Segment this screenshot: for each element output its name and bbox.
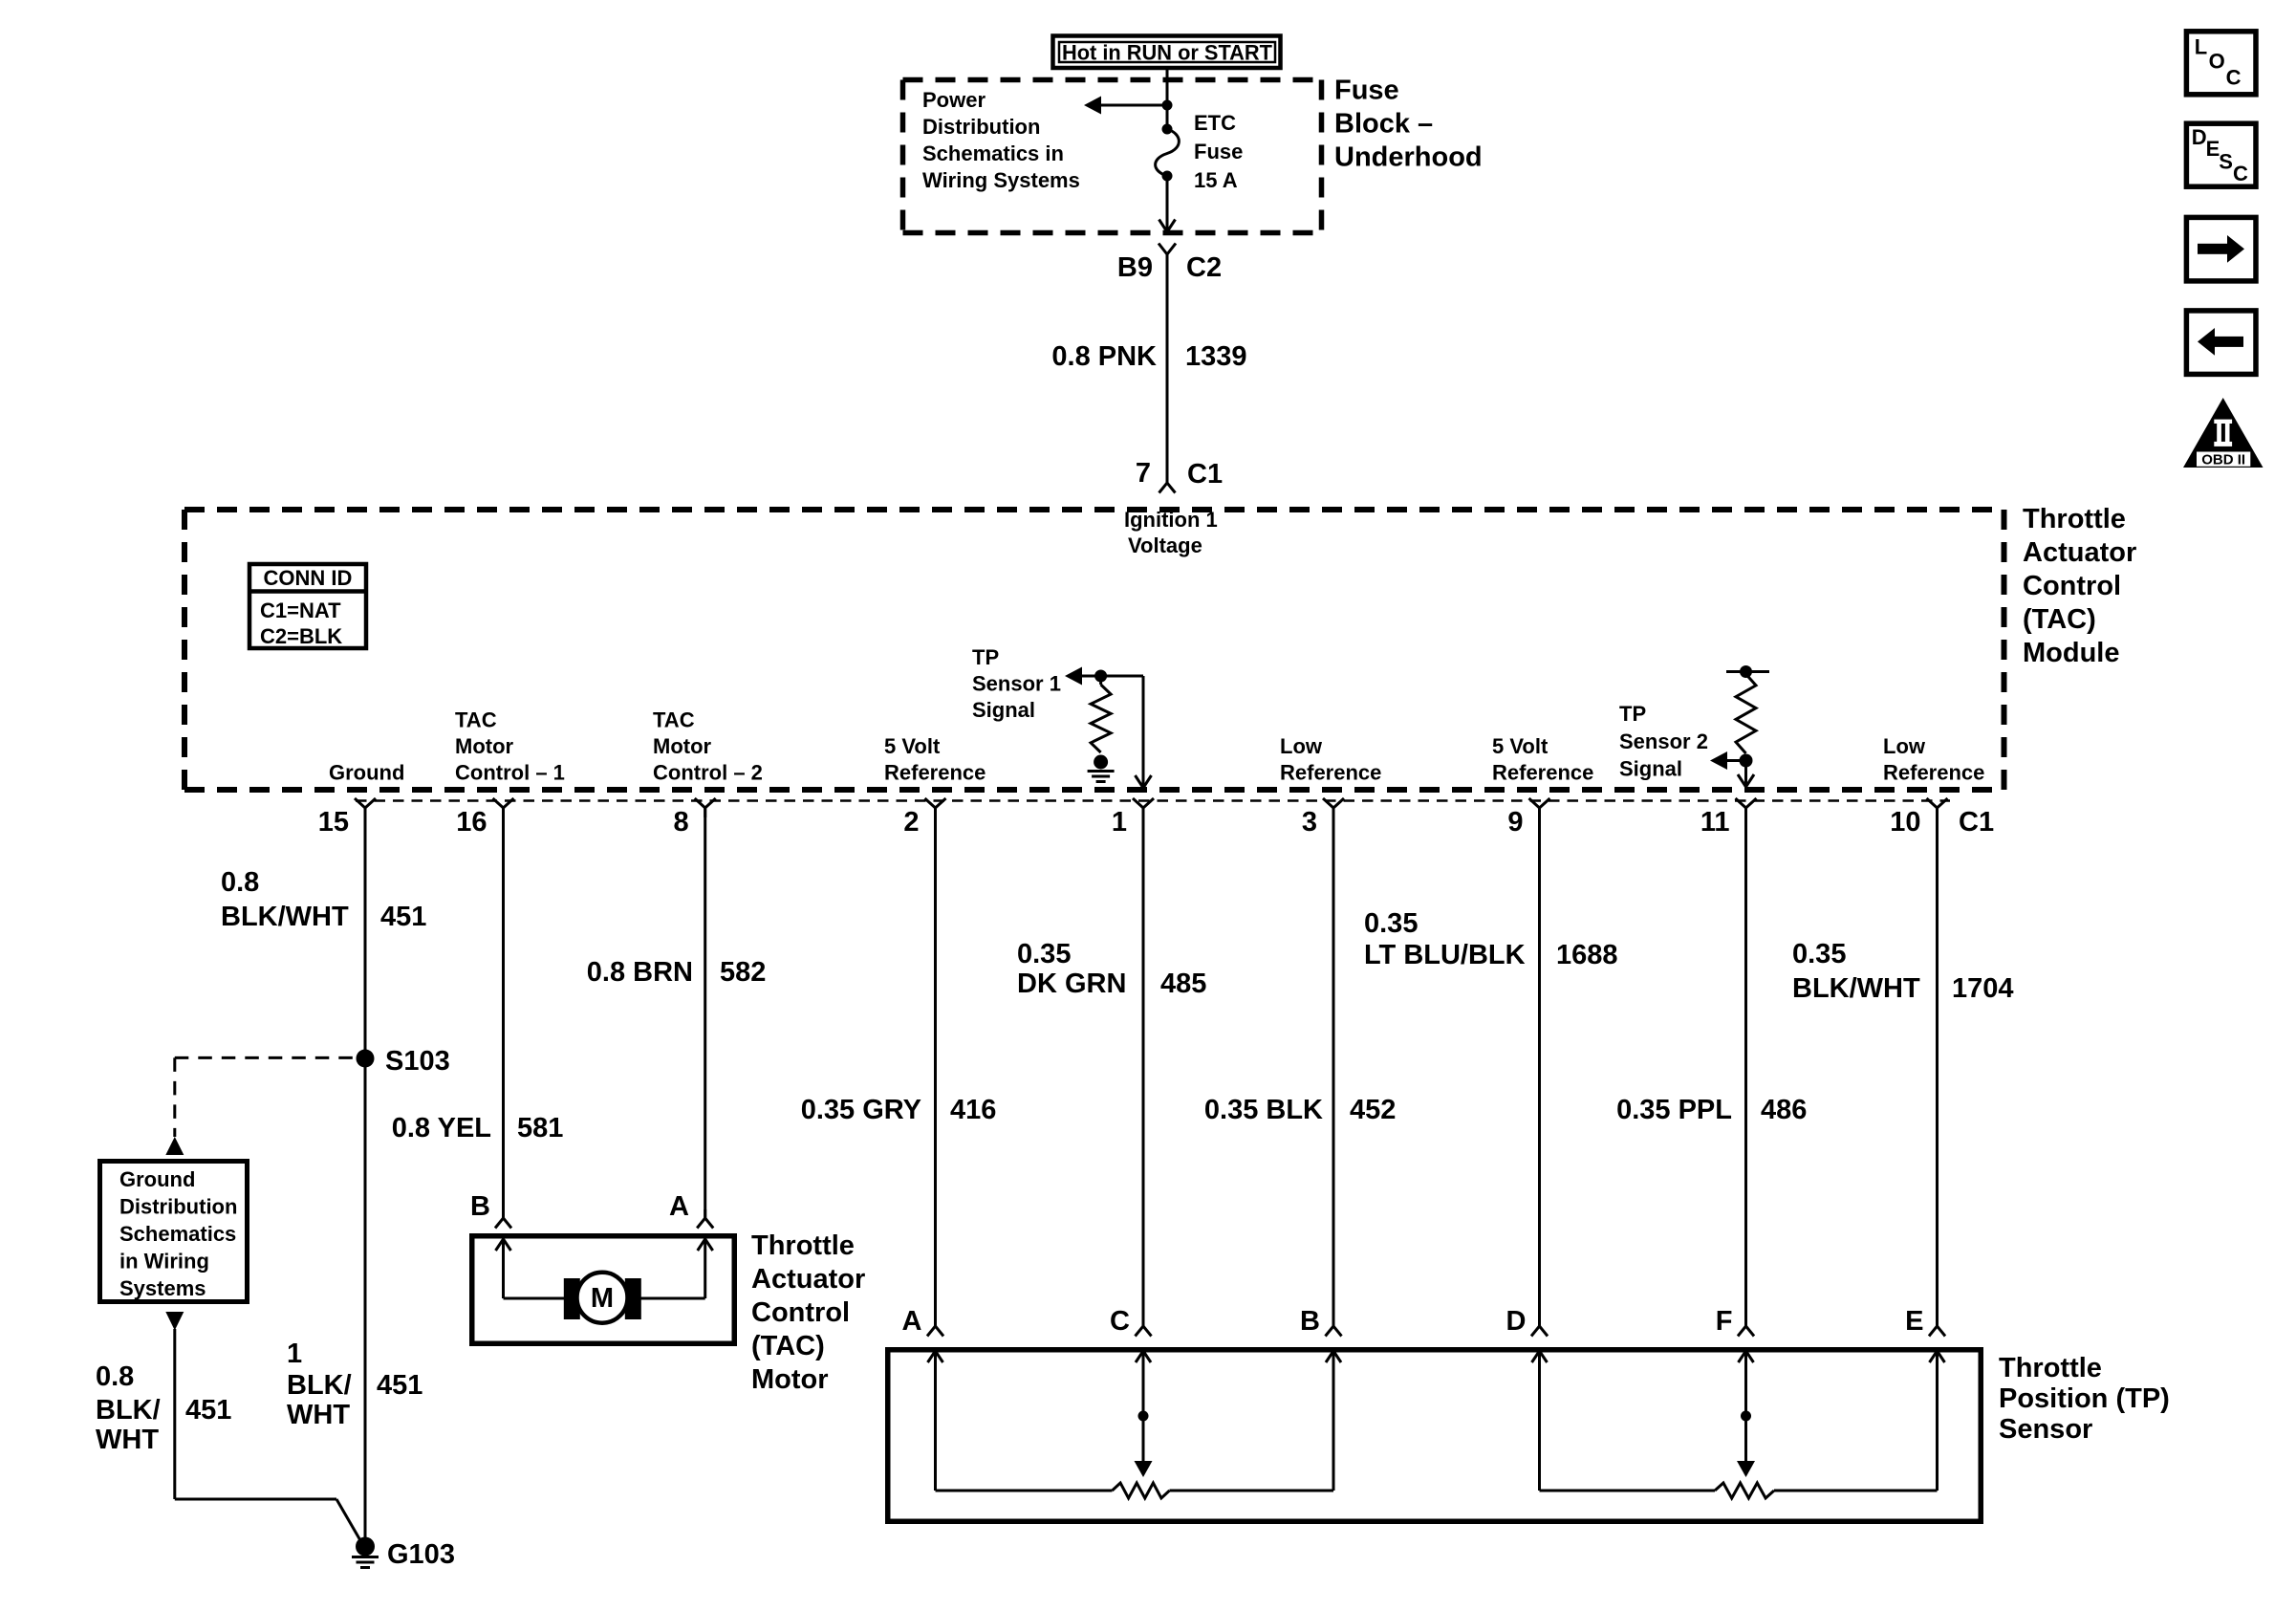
svg-text:WHT: WHT — [96, 1425, 159, 1455]
svg-text:G103: G103 — [387, 1539, 455, 1570]
svg-text:D: D — [1506, 1306, 1527, 1337]
svg-text:0.35 GRY: 0.35 GRY — [801, 1095, 921, 1125]
svg-text:S103: S103 — [385, 1046, 450, 1077]
svg-text:Ground: Ground — [329, 761, 404, 785]
svg-text:9: 9 — [1507, 807, 1523, 838]
svg-text:Actuator: Actuator — [751, 1264, 865, 1295]
svg-text:0.8: 0.8 — [96, 1361, 134, 1392]
svg-text:Control: Control — [751, 1297, 850, 1328]
svg-text:5 Volt: 5 Volt — [884, 734, 941, 758]
svg-text:TP: TP — [972, 645, 999, 669]
svg-text:8: 8 — [674, 807, 689, 838]
svg-text:Reference: Reference — [1883, 761, 1984, 785]
svg-text:1: 1 — [1112, 807, 1127, 838]
svg-text:Schematics in: Schematics in — [922, 142, 1064, 165]
svg-text:Sensor 2: Sensor 2 — [1619, 729, 1708, 753]
svg-text:0.8 YEL: 0.8 YEL — [392, 1113, 491, 1143]
svg-text:in Wiring: in Wiring — [119, 1250, 209, 1274]
svg-text:B: B — [1300, 1306, 1320, 1337]
svg-text:0.8: 0.8 — [221, 867, 259, 898]
svg-text:(TAC): (TAC) — [751, 1331, 825, 1361]
svg-text:1: 1 — [287, 1339, 302, 1369]
svg-text:F: F — [1716, 1306, 1733, 1337]
svg-text:1704: 1704 — [1952, 973, 2014, 1004]
svg-text:CONN ID: CONN ID — [264, 566, 353, 590]
svg-text:C1=NAT: C1=NAT — [260, 599, 341, 622]
svg-text:452: 452 — [1350, 1095, 1396, 1125]
svg-text:L: L — [2195, 35, 2207, 59]
svg-text:M: M — [591, 1283, 614, 1314]
svg-text:Distribution: Distribution — [922, 115, 1040, 139]
svg-text:Underhood: Underhood — [1334, 142, 1483, 173]
svg-text:C: C — [2233, 162, 2248, 185]
svg-text:D: D — [2192, 125, 2207, 149]
svg-text:E: E — [1905, 1306, 1923, 1337]
svg-text:C2=BLK: C2=BLK — [260, 624, 342, 648]
svg-text:451: 451 — [377, 1370, 422, 1401]
svg-text:A: A — [902, 1306, 922, 1337]
svg-text:5 Volt: 5 Volt — [1492, 734, 1549, 758]
svg-text:Fuse: Fuse — [1334, 76, 1399, 106]
svg-text:2: 2 — [903, 807, 919, 838]
svg-text:Throttle: Throttle — [751, 1230, 855, 1261]
svg-text:Reference: Reference — [884, 761, 986, 785]
svg-text:Actuator: Actuator — [2023, 537, 2136, 568]
svg-text:581: 581 — [517, 1113, 563, 1143]
svg-text:Throttle: Throttle — [2023, 504, 2126, 534]
svg-text:0.8 BRN: 0.8 BRN — [587, 957, 693, 988]
svg-text:15: 15 — [318, 807, 349, 838]
svg-text:OBD II: OBD II — [2201, 452, 2245, 468]
svg-text:O: O — [2209, 50, 2225, 74]
svg-text:582: 582 — [720, 957, 766, 988]
svg-text:Signal: Signal — [972, 698, 1035, 722]
svg-text:TAC: TAC — [653, 708, 695, 732]
svg-text:486: 486 — [1761, 1095, 1807, 1125]
svg-text:C: C — [2226, 65, 2242, 89]
svg-text:0.35 PPL: 0.35 PPL — [1616, 1095, 1732, 1125]
svg-text:416: 416 — [950, 1095, 996, 1125]
svg-text:Low: Low — [1883, 734, 1926, 758]
svg-text:1688: 1688 — [1556, 940, 1618, 970]
svg-text:BLK/: BLK/ — [287, 1370, 352, 1401]
svg-text:0.8 PNK: 0.8 PNK — [1051, 341, 1157, 372]
svg-text:S: S — [2219, 150, 2233, 174]
svg-text:11: 11 — [1700, 807, 1730, 838]
svg-text:Voltage: Voltage — [1128, 533, 1202, 557]
svg-text:E: E — [2206, 137, 2220, 161]
svg-text:B9: B9 — [1117, 252, 1153, 283]
svg-text:B: B — [470, 1191, 490, 1222]
svg-text:3: 3 — [1302, 807, 1317, 838]
svg-text:485: 485 — [1160, 969, 1206, 999]
svg-text:Hot in RUN or START: Hot in RUN or START — [1062, 41, 1273, 65]
svg-text:C: C — [1110, 1306, 1130, 1337]
svg-text:10: 10 — [1890, 807, 1920, 838]
svg-text:451: 451 — [185, 1395, 231, 1426]
svg-text:Wiring Systems: Wiring Systems — [922, 168, 1080, 192]
svg-text:Low: Low — [1280, 734, 1323, 758]
svg-text:Ground: Ground — [119, 1167, 195, 1191]
svg-text:0.35: 0.35 — [1017, 939, 1071, 969]
svg-text:(TAC): (TAC) — [2023, 604, 2096, 635]
svg-text:TAC: TAC — [455, 708, 497, 732]
svg-text:Sensor: Sensor — [1999, 1414, 2092, 1445]
svg-text:WHT: WHT — [287, 1400, 350, 1430]
svg-text:C1: C1 — [1187, 459, 1223, 490]
svg-text:Position (TP): Position (TP) — [1999, 1383, 2170, 1414]
svg-text:0.35: 0.35 — [1792, 939, 1846, 969]
svg-text:Control – 1: Control – 1 — [455, 761, 565, 785]
svg-text:Ignition 1: Ignition 1 — [1124, 508, 1218, 532]
svg-text:Throttle: Throttle — [1999, 1353, 2102, 1383]
svg-text:Control: Control — [2023, 571, 2121, 601]
svg-text:Motor: Motor — [751, 1364, 829, 1395]
svg-text:1339: 1339 — [1185, 341, 1247, 372]
svg-text:15 A: 15 A — [1194, 168, 1238, 192]
svg-text:Block –: Block – — [1334, 109, 1433, 140]
svg-text:Motor: Motor — [455, 734, 514, 758]
svg-text:Reference: Reference — [1492, 761, 1593, 785]
svg-text:LT BLU/BLK: LT BLU/BLK — [1364, 940, 1526, 970]
svg-text:DK GRN: DK GRN — [1017, 969, 1126, 999]
svg-text:451: 451 — [380, 902, 426, 932]
svg-text:C1: C1 — [1959, 807, 1994, 838]
svg-text:0.35: 0.35 — [1364, 908, 1418, 939]
svg-text:0.35 BLK: 0.35 BLK — [1204, 1095, 1323, 1125]
svg-text:Power: Power — [922, 88, 986, 112]
svg-text:Fuse: Fuse — [1194, 140, 1243, 163]
svg-text:BLK/WHT: BLK/WHT — [1792, 973, 1920, 1004]
svg-text:Systems: Systems — [119, 1276, 206, 1300]
svg-text:C2: C2 — [1186, 252, 1222, 283]
svg-text:Module: Module — [2023, 638, 2120, 668]
svg-text:TP: TP — [1619, 702, 1646, 726]
svg-text:A: A — [669, 1191, 689, 1222]
svg-text:Schematics: Schematics — [119, 1222, 236, 1246]
svg-text:Reference: Reference — [1280, 761, 1381, 785]
svg-text:7: 7 — [1136, 458, 1151, 489]
svg-text:Motor: Motor — [653, 734, 712, 758]
svg-text:BLK/WHT: BLK/WHT — [221, 902, 349, 932]
svg-text:Distribution: Distribution — [119, 1195, 237, 1219]
svg-text:Control – 2: Control – 2 — [653, 761, 763, 785]
svg-text:ETC: ETC — [1194, 111, 1236, 135]
svg-text:Signal: Signal — [1619, 757, 1682, 781]
svg-text:Sensor 1: Sensor 1 — [972, 672, 1061, 696]
svg-text:16: 16 — [456, 807, 487, 838]
svg-text:BLK/: BLK/ — [96, 1395, 161, 1426]
